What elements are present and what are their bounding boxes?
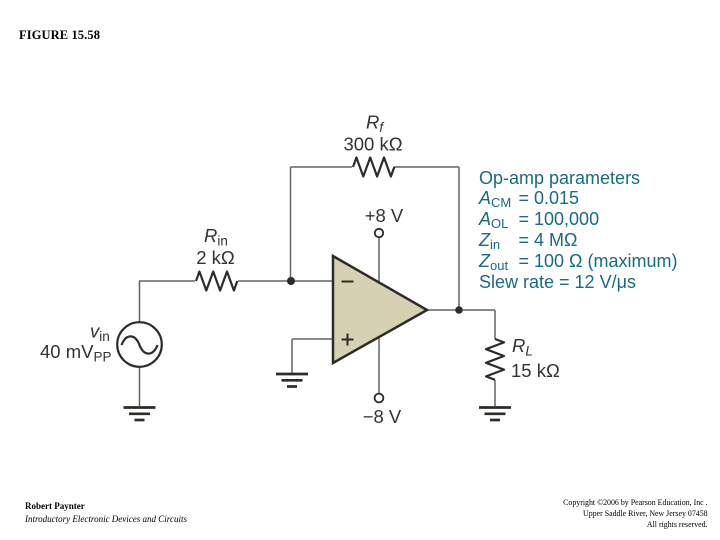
- svg-text:+8 V: +8 V: [365, 205, 404, 226]
- wire: output: [427, 309, 495, 311]
- wire: feedback top right segment: [394, 166, 459, 168]
- footer right copyright: [563, 498, 708, 530]
- svg-text:40 mVPP: 40 mVPP: [40, 341, 111, 365]
- figure title: [19, 28, 100, 43]
- wire: feedback right vertical: [458, 167, 460, 310]
- svg-text:15 kΩ: 15 kΩ: [511, 360, 560, 381]
- footer left credits: [25, 500, 187, 525]
- wire: source bottom lead: [139, 367, 141, 406]
- wire: -8V supply: [378, 320, 380, 393]
- svg-text:RL: RL: [512, 335, 533, 359]
- resistor Rf: [353, 158, 394, 177]
- wire: feedback top left segment: [291, 166, 353, 168]
- resistor Rin: [196, 272, 237, 291]
- wire: noninverting input to ground: [292, 339, 333, 373]
- terminal: +8V: [375, 229, 383, 237]
- ground: noninverting input: [276, 374, 308, 387]
- svg-text:Rf: Rf: [366, 112, 384, 136]
- svg-text:300 kΩ: 300 kΩ: [343, 134, 402, 155]
- wire: feedback left vertical: [290, 167, 292, 281]
- op-amp minus sign: [342, 281, 354, 283]
- node: inverting input junction: [287, 277, 295, 285]
- wire: Rin to inverting input: [238, 280, 333, 282]
- terminal: -8V: [375, 394, 384, 403]
- node: output junction: [455, 306, 463, 314]
- op-amp parameters text block: [479, 168, 678, 293]
- voltage source Vin: [117, 322, 162, 367]
- op-amp U1: [333, 256, 427, 363]
- wire: +8V supply: [378, 238, 380, 300]
- wire: RL bottom lead: [494, 380, 496, 406]
- wire: source to Rin: [140, 281, 196, 322]
- svg-text:2 kΩ: 2 kΩ: [196, 247, 235, 268]
- op-amp plus sign: [342, 334, 354, 346]
- wire: RL top lead: [494, 310, 496, 339]
- svg-text:Rin: Rin: [204, 225, 228, 249]
- ground: source: [124, 408, 156, 421]
- resistor RL: [486, 339, 504, 380]
- ground: RL: [479, 408, 511, 421]
- svg-text:−8 V: −8 V: [363, 406, 402, 427]
